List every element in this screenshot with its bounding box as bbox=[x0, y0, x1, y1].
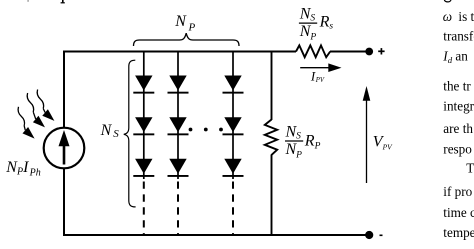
wire right branch upper bbox=[271, 51, 273, 121]
brace Np (top horizontal) bbox=[134, 33, 240, 46]
resistor Rp (shunt, vertical) bbox=[265, 120, 277, 155]
diode column 3 wire bbox=[232, 51, 234, 179]
svg-text:time c: time c bbox=[443, 205, 474, 220]
svg-text:are th: are th bbox=[443, 121, 473, 136]
cut-off letter stem top-left bbox=[61, 0, 65, 3]
svg-text:ω is th: ω is th bbox=[443, 9, 474, 24]
label + bbox=[378, 48, 384, 54]
arrow IPV bbox=[300, 63, 341, 72]
wire left branch lower bbox=[63, 168, 65, 236]
diode D11 bbox=[133, 76, 154, 94]
diode column 1 dashed wire bbox=[143, 182, 145, 236]
current source circle bbox=[44, 128, 85, 169]
cut-off text fragment top-left (faint) bbox=[27, 0, 29, 2]
wire top-right (after Rs) bbox=[330, 51, 367, 53]
wire left branch upper bbox=[63, 51, 65, 129]
diode D33 bbox=[223, 159, 244, 177]
diode D23 bbox=[168, 159, 189, 177]
svg-text:respo: respo bbox=[443, 142, 472, 157]
svg-text:Id an: Id an bbox=[442, 48, 468, 65]
diode D22 bbox=[168, 117, 189, 135]
diode column 2 dashed wire bbox=[177, 182, 179, 236]
ellipsis dots between columns bbox=[189, 128, 223, 132]
diode column 3 dashed wire bbox=[232, 182, 234, 236]
cut-off letter g bottom, top-right bbox=[444, 0, 451, 2]
brace Ns (left vertical) bbox=[124, 60, 136, 207]
light ray arrow 3 (left) bbox=[17, 106, 35, 138]
diode D32 bbox=[223, 117, 244, 135]
label Ns/Np Rs fraction bbox=[299, 6, 334, 43]
svg-text:the tr: the tr bbox=[443, 79, 471, 94]
diode D21 bbox=[168, 76, 189, 94]
terminal + (top right) bbox=[365, 48, 373, 56]
light ray arrow 2 (middle) bbox=[26, 93, 45, 128]
light ray arrow 1 (right) bbox=[36, 89, 54, 121]
label Ns/Np Rp fraction bbox=[285, 124, 321, 161]
diode D13 bbox=[133, 159, 154, 177]
diode column 1 wire bbox=[143, 51, 145, 179]
svg-text:transfo: transfo bbox=[443, 29, 474, 44]
svg-text:if pro: if pro bbox=[443, 184, 472, 199]
current source arrow bbox=[59, 130, 70, 165]
diode column 2 wire bbox=[177, 51, 179, 179]
label - bbox=[380, 234, 383, 236]
svg-text:Th: Th bbox=[466, 161, 474, 176]
diode D12 bbox=[133, 117, 154, 135]
resistor Rs (series, top) bbox=[296, 45, 330, 57]
diode D31 bbox=[223, 76, 244, 94]
wire top bbox=[63, 51, 296, 53]
svg-text:tempe: tempe bbox=[443, 225, 474, 240]
wire right branch lower bbox=[271, 155, 273, 237]
arrow VPV bbox=[363, 86, 371, 183]
svg-text:integr: integr bbox=[443, 99, 474, 114]
wire bottom bbox=[63, 234, 367, 236]
terminal - (bottom right) bbox=[365, 231, 373, 239]
